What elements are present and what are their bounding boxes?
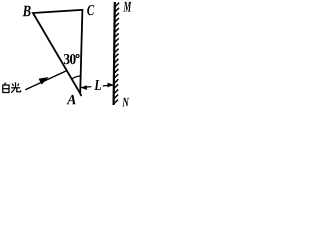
label 白光 (drawn) : 光	[11, 82, 20, 92]
screen hatching	[114, 3, 119, 104]
screen MN line	[114, 2, 115, 105]
vertex label C	[87, 5, 94, 15]
prism triangle ABC	[33, 10, 82, 94]
angle arc at A	[72, 76, 81, 79]
screen label M	[123, 2, 131, 12]
background	[0, 0, 138, 123]
vertex label B	[23, 6, 31, 17]
angle label 30deg	[64, 54, 70, 64]
A vertex overshoot tail	[79, 92, 81, 96]
distance marker right arrow	[103, 84, 113, 87]
vertex label A	[67, 95, 76, 104]
screen label N	[122, 98, 129, 107]
label 白光 (drawn) : 白	[3, 83, 9, 93]
distance marker left arrow	[81, 86, 91, 89]
distance label L	[94, 80, 101, 90]
incident white-light ray (wire)	[25, 71, 67, 90]
degree mark	[76, 55, 79, 58]
incident ray arrowhead	[39, 77, 49, 85]
